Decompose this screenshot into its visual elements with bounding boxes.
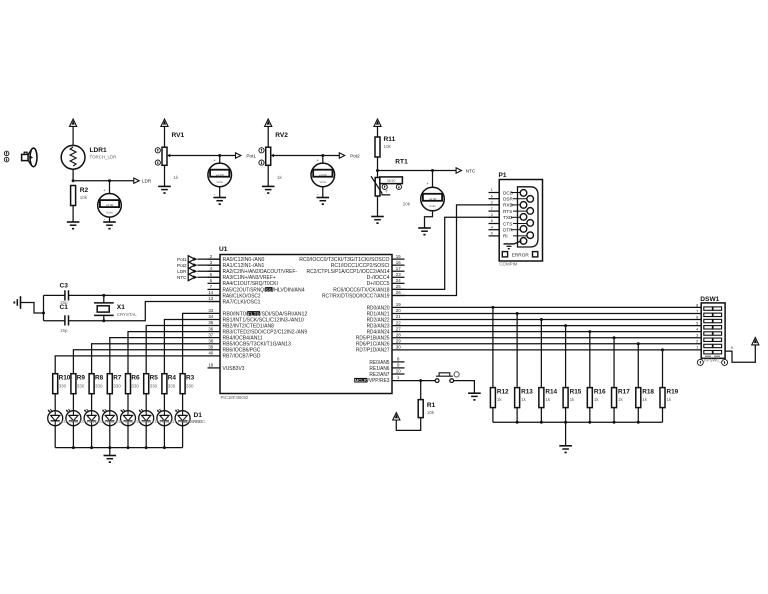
svg-text:R8: R8 [95,374,104,381]
svg-text:R2: R2 [80,187,89,194]
resistor R18 1k [636,388,655,408]
svg-text:LDR: LDR [142,179,152,184]
svg-text:+0.00: +0.00 [319,173,327,177]
wire R16 to bus [589,408,591,423]
wire U1 RB4 to R7 [110,338,220,374]
resistor R14 1k [539,388,558,408]
svg-text:1k: 1k [618,397,624,402]
wire LED D8 to bus [54,426,56,448]
net arrow NTC [456,168,476,174]
label C1 15p [60,304,69,333]
svg-text:10k: 10k [427,410,435,415]
svg-text:330: 330 [77,383,85,388]
svg-text:13: 13 [208,296,213,301]
crystal X1 [94,295,114,320]
svg-text:R12: R12 [497,388,509,395]
svg-text:36: 36 [208,326,213,331]
svg-text:LED-RED: LED-RED [59,419,78,424]
svg-text:R1: R1 [427,402,436,409]
DSW1 switch elements [704,307,722,356]
svg-text:330: 330 [168,383,176,388]
P1 DB9 pin circles [511,190,534,245]
capacitor C1 [65,315,69,325]
svg-text:C3: C3 [60,283,69,290]
label RV1 1k [172,132,185,180]
svg-text:RC7/RX/DT/SDO/IOCC7/AN19: RC7/RX/DT/SDO/IOCC7/AN19 [322,293,390,299]
wire RT1 to ground [377,196,379,217]
svg-text:LED-RED: LED-RED [77,419,96,424]
svg-text:40: 40 [208,351,213,356]
svg-text:6: 6 [491,194,493,198]
svg-text:20: 20 [396,308,401,313]
svg-text:R3: R3 [186,374,195,381]
svg-text:1: 1 [491,188,493,192]
power arrow R1 [393,413,400,420]
svg-text:19: 19 [396,302,401,307]
net arrow Pot1 [236,153,257,159]
DSW1 pin numbers [696,303,698,349]
svg-text:MCLR: MCLR [355,378,368,384]
svg-text:16: 16 [396,260,401,265]
wire tap to R14 [540,320,542,388]
svg-text:LDR1: LDR1 [90,147,108,154]
ground button [468,393,481,401]
wire U1 RD4 to DSW1 pin 4 [392,330,701,333]
LED D6 [84,409,99,426]
voltmeter Pot1 [208,156,232,187]
svg-text:CRYSTAL: CRYSTAL [117,312,137,317]
svg-text:SS: SS [266,287,272,293]
wire U1 RB3 to R6 [128,332,220,374]
svg-text:1k: 1k [521,397,527,402]
label X1 CRYSTAL [117,304,137,317]
wire tap to R15 [565,326,567,388]
label R11 10k [384,136,396,149]
wire tap to R18 [637,344,639,388]
U1 RB pin names [223,311,308,360]
DSW1 pin 9 wire to power [725,345,755,362]
microcontroller U1 box [220,255,392,394]
voltmeter Pot2 [311,156,335,187]
svg-text:33: 33 [208,308,213,313]
svg-text:26: 26 [396,290,401,295]
svg-text:R17: R17 [618,388,630,395]
net arrow Pot1 into U1 [177,256,220,263]
svg-text:R14: R14 [545,388,557,395]
wire U1 RB7 to R10 [55,356,220,374]
svg-text:1k: 1k [642,397,648,402]
power arrow R11 [374,119,381,137]
svg-text:RB7/IOCB7/PGD: RB7/IOCB7/PGD [223,354,261,360]
ground voltmeter NTC [418,228,431,236]
svg-text:6: 6 [696,315,698,319]
svg-text:COMPIM: COMPIM [499,261,517,266]
wire tap to R13 [516,313,518,387]
svg-text:/HLVDIN/AN4: /HLVDIN/AN4 [273,287,305,293]
svg-text:VUSB3V3: VUSB3V3 [223,366,245,372]
resistor R11 [375,137,380,157]
svg-text:23: 23 [396,272,401,277]
svg-text:37: 37 [208,332,213,337]
wire U1 RD0 to DSW1 pin 8 [392,306,701,309]
pulldown bus wire [493,421,663,424]
svg-text:+0.00: +0.00 [429,197,437,201]
svg-text:RE1/AN6: RE1/AN6 [369,366,389,372]
svg-text:RE2/AN7: RE2/AN7 [369,372,389,378]
svg-text:DSR: DSR [503,197,514,202]
button actuator [454,372,459,377]
wire R6 to LED [127,394,129,411]
RV1 actuator buttons [155,148,160,166]
resistor R1 [418,400,435,418]
svg-text:R7: R7 [113,374,122,381]
U1 RC pin stubs names numbers [299,254,404,300]
svg-text:3: 3 [696,334,698,338]
label LDR1 / TORCH_LDR [90,147,117,160]
svg-text:RD7/P1D/AN27: RD7/P1D/AN27 [356,348,390,354]
net arrow NTC into U1 [177,274,220,281]
svg-text:Pot2: Pot2 [350,153,360,158]
svg-text:8: 8 [491,219,493,223]
svg-text:TORCH_LDR: TORCH_LDR [90,155,117,160]
wire U1 RB1 to R4 [164,319,220,373]
svg-text:15: 15 [396,254,401,259]
U1 RA pin names [223,257,305,305]
svg-text:2: 2 [696,340,698,344]
LED D8 [48,409,63,426]
wire U1 RD1 to DSW1 pin 7 [392,312,701,315]
speaker actuator buttons [4,151,9,162]
svg-text:1k: 1k [594,397,600,402]
speaker icon [22,148,37,167]
wire R1 to power [396,418,420,431]
svg-text:17: 17 [396,266,401,271]
svg-text:25: 25 [396,284,401,289]
wire LED D6 to bus [91,426,93,448]
push button [435,373,453,383]
svg-text:1k: 1k [545,397,551,402]
svg-text:R18: R18 [642,388,654,395]
net arrow LDR into U1 [177,268,220,275]
resistor R16 1k [587,388,606,408]
svg-text:+0.00: +0.00 [106,203,114,207]
svg-text:DIPSWC_8: DIPSWC_8 [702,358,725,363]
wire voltmeter Pot2 to ground [317,187,323,198]
svg-text:NTC: NTC [177,275,187,280]
svg-text:330: 330 [113,383,121,388]
potentiometer RV1 [162,147,172,165]
svg-text:R6: R6 [131,374,140,381]
svg-text:7: 7 [696,309,698,313]
svg-text:20k: 20k [403,202,411,207]
svg-text:Volts: Volts [106,211,113,215]
wire R4 to LED [163,394,165,411]
net arrow Pot2 [339,153,360,159]
svg-text:-t°: -t° [385,190,389,194]
svg-text:24: 24 [396,278,401,283]
svg-text:14: 14 [208,290,213,295]
resistor R17 1k [612,388,631,408]
wire U1 RB2 to R5 [146,326,220,374]
voltmeter NTC [421,171,445,211]
svg-text:1k: 1k [570,397,576,402]
wire RXD to U1 RC7 [392,205,499,296]
P1 pin stubs and names [489,188,514,239]
svg-text:330: 330 [95,383,103,388]
svg-text:LED-RED: LED-RED [150,419,169,424]
svg-text:4: 4 [696,328,698,332]
svg-text:10k: 10k [80,195,88,200]
svg-text:4: 4 [491,225,493,229]
svg-text:RTS: RTS [503,209,512,214]
svg-text:Volts: Volts [429,204,436,208]
svg-text:1k: 1k [497,397,503,402]
ground RV1 [158,186,171,194]
wire LED D5 to bus [109,426,111,448]
svg-text:R16: R16 [594,388,606,395]
LED D2 [157,409,172,426]
svg-text:1k: 1k [174,175,180,180]
potentiometer RV2 [266,147,276,165]
wire node NTC to arrow [378,169,457,172]
wire U1 RB5 to R8 [92,344,220,374]
svg-text:18: 18 [208,363,213,368]
svg-text:330: 330 [59,383,67,388]
wire R5 to LED [145,394,147,411]
wire TXD to U1 RC6 [392,217,499,289]
svg-text:29: 29 [396,338,401,343]
svg-text:R13: R13 [521,388,533,395]
svg-text:8: 8 [696,303,698,307]
wire R12 to bus [492,408,494,423]
wire U1 RD7 to DSW1 pin 1 [392,348,701,351]
svg-text:330: 330 [186,383,194,388]
svg-text:30: 30 [396,345,401,350]
wire R9 to LED [72,394,74,411]
svg-text:NTC: NTC [466,168,476,173]
wire tap to R17 [613,338,615,388]
ground RT1 [371,217,384,225]
resistor R8 330 [89,374,104,394]
svg-text:LDR: LDR [177,269,187,274]
P1 shell ground [504,241,522,250]
LED D3 [139,409,154,426]
svg-text:330: 330 [131,383,139,388]
svg-text:7: 7 [491,207,493,211]
wire OSC2 top [44,294,221,297]
svg-text:9: 9 [731,346,733,350]
power arrow RV2 [265,119,272,147]
svg-text:C1: C1 [60,304,69,311]
wire LED D2 to bus [163,426,165,448]
svg-text:R10: R10 [59,374,71,381]
svg-text:PIC18F45K50: PIC18F45K50 [221,395,249,400]
svg-text:R19: R19 [667,388,679,395]
power arrow DSW1 [752,338,759,345]
svg-text:35: 35 [208,320,213,325]
wire voltmeter NTC to ground [425,211,433,228]
svg-text:R9: R9 [77,374,86,381]
svg-text:Pot2: Pot2 [177,263,187,268]
wire R10 to LED [54,394,56,411]
svg-text:RV1: RV1 [172,132,185,139]
DSW1 actuator buttons [697,359,727,365]
resistor R15 1k [563,388,582,408]
wire voltmeter LDR to ground [104,217,110,222]
wire U1 RB0 to R3 [183,313,220,373]
svg-text:LED-RED: LED-RED [113,419,132,424]
wire button to ground [454,381,475,394]
ground crystal [14,296,46,314]
svg-text:Pot1: Pot1 [246,153,256,158]
net arrow Pot2 into U1 [177,262,220,269]
voltmeter LDR [98,181,122,217]
wire R8 to LED [91,394,93,411]
wire U1 RD5 to DSW1 pin 3 [392,336,701,339]
LED D7 [66,409,81,426]
ground RV2 [262,186,275,194]
power arrow LDR1 [70,119,77,146]
wire RV2 to ground [267,165,269,186]
svg-text:ERROR: ERROR [512,252,530,257]
svg-text:1: 1 [696,346,698,350]
wire R3 to LED [182,394,184,411]
resistor R13 1k [515,388,534,408]
wire R19 to bus [662,408,664,423]
ground voltmeter Pot1 [213,198,226,206]
U1 RD pin numbers and names [356,302,401,354]
U1 RB pin numbers [208,308,213,355]
wire LED cathode bus [55,446,182,449]
wire U1 RD6 to DSW1 pin 2 [392,342,701,345]
svg-text:R11: R11 [384,136,396,143]
LDR LDR1 [61,145,85,169]
RT1 actuator buttons [382,184,401,189]
resistor R9 330 [71,374,86,394]
wire tap to R16 [589,332,591,388]
svg-text:34: 34 [208,314,213,319]
resistor R5 330 [144,374,159,394]
resistor R2 [71,186,76,223]
wire voltmeter Pot1 to ground [214,187,220,198]
wire U1 MCLR to button [392,379,435,382]
P1 DB9 shell [518,187,539,247]
ground R2 [67,222,80,230]
svg-text:DSW1: DSW1 [700,296,719,303]
label -t and 20k [385,190,411,207]
wire U1 RB6 to R9 [73,350,220,374]
svg-text:P1: P1 [499,172,507,179]
svg-text:10: 10 [396,369,401,374]
wire node LDR to arrow [73,179,134,182]
svg-text:CTS: CTS [503,221,512,226]
svg-text:+0.00: +0.00 [216,173,224,177]
wire pulldown bus to ground [565,422,567,446]
wire R18 to bus [637,408,639,423]
svg-text:10k: 10k [384,144,392,149]
U1 RA pin stubs and numbers [208,254,221,302]
wire R17 to bus [613,408,615,423]
wire R11 to node NTC [376,157,379,178]
ground voltmeter Pot2 [317,198,330,206]
wire tap to R12 [492,307,494,387]
resistor R7 330 [107,374,122,394]
svg-text:LED-RED: LED-RED [183,419,202,424]
svg-text:28: 28 [396,332,401,337]
svg-text:Pot1: Pot1 [177,257,187,262]
label C3 15p [60,283,69,306]
resistor R10 330 [53,374,71,394]
LED D1 [175,409,190,426]
connector P1 body [499,180,542,262]
LED D4 [120,409,135,426]
svg-text:LED-RED: LED-RED [95,419,114,424]
wire R7 to LED [109,394,111,411]
U1 VUSB3V3 pin 18 [208,363,245,372]
svg-text:U1: U1 [219,246,228,253]
wire MCLR node to R1 [420,381,422,400]
wire bus to ground [109,448,111,456]
ground voltmeter LDR [103,222,116,230]
svg-text:3: 3 [491,213,493,217]
label R2 10k [80,187,89,200]
svg-text:15p: 15p [60,328,68,333]
svg-text:27: 27 [396,326,401,331]
svg-text:RA7/CLKI/OSC1: RA7/CLKI/OSC1 [223,299,261,305]
resistor R4 330 [162,374,177,394]
svg-text:5: 5 [696,321,698,325]
svg-text:R15: R15 [570,388,582,395]
U1 RE pin stubs names numbers [369,357,404,378]
svg-text:Volts: Volts [319,180,326,184]
P1 ERROR indicator [502,252,538,258]
label D1 LED-RED [59,412,205,424]
wire LED D3 to bus [145,426,147,448]
wire OSC1 bottom [44,302,221,323]
wire RV2 wiper to Pot2 [274,154,339,157]
resistor R12 1k [490,388,509,408]
resistor R3 330 [180,374,195,394]
svg-text:1k: 1k [667,397,673,402]
power arrow RV1 [161,119,168,147]
svg-text:1k: 1k [277,175,283,180]
svg-text:X1: X1 [117,304,125,311]
wire U1 RD2 to DSW1 pin 6 [392,318,701,321]
svg-text:330: 330 [150,383,158,388]
wire RV1 to ground [164,165,166,186]
wire R13 to bus [516,408,518,423]
svg-text:R4: R4 [168,374,177,381]
wire LED D4 to bus [127,426,129,448]
wire U1 RD3 to DSW1 pin 5 [392,324,701,327]
wire LDR1 to node LDR [72,169,75,182]
svg-text:RT1: RT1 [395,159,408,166]
svg-text:RI: RI [503,234,508,239]
svg-text:9: 9 [491,232,493,236]
wire R14 to bus [540,408,542,423]
RT1 temperature display [380,177,403,184]
svg-text:36.90: 36.90 [387,179,396,183]
wire OSC left vertical [43,295,45,320]
U1 MCLR pin 1 [354,375,400,384]
RV2 actuator buttons [259,148,264,166]
svg-text:Volts: Volts [216,180,223,184]
wire tap to R19 [662,350,664,388]
wire R15 to bus [565,408,567,423]
resistor R6 330 [126,374,141,394]
net arrow LDR [134,178,152,184]
svg-text:LED-RED: LED-RED [132,419,151,424]
